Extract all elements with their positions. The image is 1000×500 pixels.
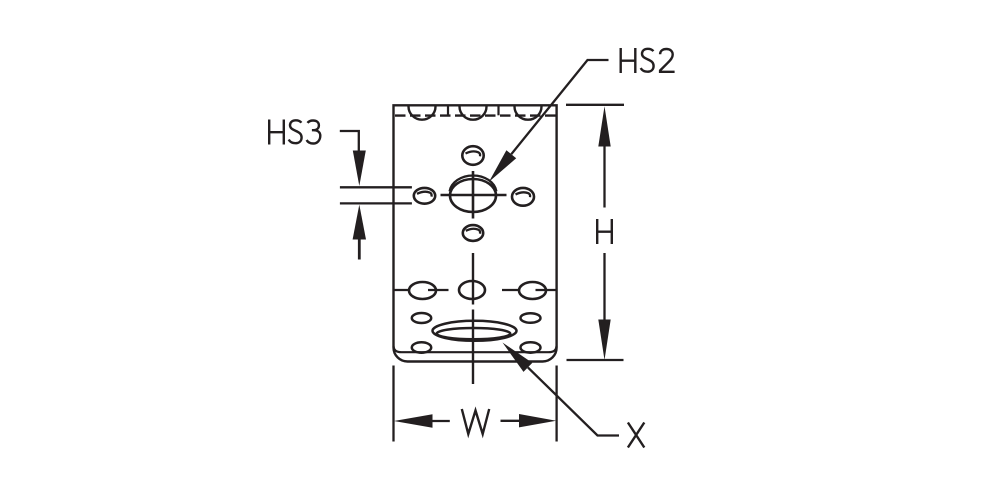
label H [597, 219, 612, 244]
HS3 lower line [340, 202, 412, 204]
oval slot X inner [437, 328, 511, 339]
bottom small hole upper-right [521, 313, 541, 323]
bottom small hole lower-right [521, 342, 541, 352]
plate outline [394, 105, 557, 361]
small hole left HS3 [414, 188, 435, 204]
small hole right [512, 188, 534, 206]
mid row hole center [459, 281, 485, 299]
top notch arc 2 [460, 107, 487, 120]
dimension W left extension line [392, 366, 394, 442]
leader HS3 line [340, 131, 359, 151]
top notch arc 1 [409, 107, 436, 120]
small hole bottom [463, 225, 483, 241]
small hole right rim [516, 192, 531, 197]
bottom fold line [394, 346, 557, 352]
HS3 lower arrow shaft [358, 239, 361, 260]
HS3 upper line [340, 186, 412, 188]
bottom small hole upper-left [412, 313, 431, 323]
leader X line [528, 367, 619, 435]
dimension H line upper [603, 146, 605, 208]
dimension H arrow up [598, 106, 610, 146]
dimension H bottom extension line [567, 359, 624, 361]
dimension W arrow right [519, 414, 556, 427]
small hole top [462, 146, 483, 165]
mid row hole right [519, 282, 546, 299]
label X [628, 423, 644, 448]
dimension W arrow left [394, 414, 433, 427]
central hole rim [450, 175, 497, 191]
label HS3 [269, 120, 320, 145]
dimension W right extension line [555, 366, 557, 442]
label HS2 [621, 48, 675, 73]
mid row hole left [409, 282, 436, 299]
dimension H arrow down [598, 320, 610, 361]
leader X arrowhead [503, 343, 533, 372]
central hole crosshair horizontal [441, 194, 507, 197]
small hole top rim [466, 151, 481, 156]
HS3 arrow down [353, 151, 366, 187]
notch tick 2 [497, 106, 499, 115]
central hole crosshair vertical [472, 171, 475, 219]
dimension W shaft left [432, 420, 450, 422]
top notch arc 3 [515, 107, 542, 120]
leader HS2 line [511, 60, 608, 154]
notch tick 1 [447, 106, 449, 115]
dimension H top extension line [566, 104, 624, 106]
vertical center line [472, 253, 474, 384]
mid row center line segments [394, 289, 557, 291]
leader HS2 arrowhead [489, 150, 516, 182]
oval slot X outer [433, 321, 517, 341]
hidden edge dashed line [395, 114, 556, 116]
dimension H line lower [603, 253, 605, 320]
small hole left rim [417, 192, 432, 197]
small hole bottom rim [466, 229, 480, 234]
central hole HS2 [450, 179, 496, 212]
label W [462, 409, 489, 434]
dimension W shaft right [501, 420, 520, 422]
HS3 arrow up [353, 205, 366, 240]
bottom small hole lower-left [412, 342, 431, 352]
